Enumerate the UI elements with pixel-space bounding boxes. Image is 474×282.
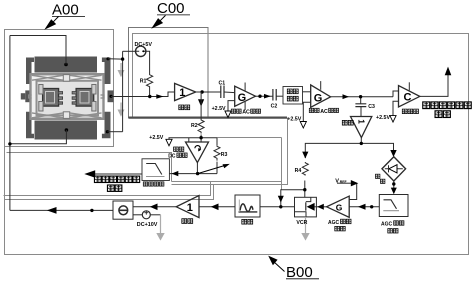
wire C3 to unity buffer <box>360 107 362 117</box>
node middle-section inner right edge <box>281 138 283 182</box>
wire phase box to VCR <box>260 206 295 208</box>
wire R3 bottom lead <box>216 162 218 174</box>
wire DC+5V right lead to R1 <box>146 51 150 73</box>
source DC+10V circle <box>142 211 150 219</box>
svg-text:VCR: VCR <box>296 220 307 226</box>
node R2 R3 input junction <box>199 136 202 139</box>
wire C2 to gain box <box>276 95 283 97</box>
anchor bracket bottom-right <box>102 112 111 139</box>
node AGC branch junction <box>279 205 282 208</box>
electrode bottom plate <box>35 121 98 140</box>
hanzi 二级AC放大 G2 label <box>309 108 313 112</box>
hanzi 传感频率输出 output label <box>423 102 430 109</box>
mass right inner notch <box>80 92 89 104</box>
wire AGC amp to VCR <box>316 206 326 208</box>
wire rectifier to AGC box <box>393 181 395 188</box>
wire G1 output <box>256 95 273 97</box>
symbol op-amp chopper glyph <box>195 146 200 151</box>
hanzi 前级DC放大 op-amp label <box>174 147 179 151</box>
svg-text:DC: DC <box>168 154 176 160</box>
arrow buffer to summing <box>150 204 158 211</box>
hanzi 片上测温电压 temperature label <box>94 176 101 182</box>
MEMS resonator structure <box>21 57 125 140</box>
pin G1 top <box>244 83 246 91</box>
node G2 output junction <box>359 95 362 98</box>
symbol VCR mosfet source line <box>295 212 307 217</box>
wire gain box to G2 <box>303 91 311 93</box>
hanzi 信号 output label line2 <box>435 111 442 118</box>
node AGC filter junction <box>370 205 373 208</box>
shuttle square top <box>63 75 69 82</box>
svg-text:DC+10V: DC+10V <box>137 222 158 228</box>
wire top-right bracket to bias vertical <box>108 58 123 60</box>
node bottom-section top outer edge <box>5 185 214 200</box>
arrow down into rectifier <box>390 150 396 157</box>
node sense junction R1 <box>148 95 151 98</box>
arrow G2 output feed <box>343 94 350 99</box>
pin op-amp left input <box>188 138 190 142</box>
symbol rectifier diode bar <box>388 165 390 172</box>
svg-text:C1: C1 <box>219 80 226 86</box>
svg-text:1: 1 <box>357 119 366 124</box>
svg-text:V: V <box>335 178 339 184</box>
anchor post left lower <box>39 102 43 112</box>
wire R2 bottom to input node <box>200 135 202 143</box>
op-amp G1 front AC amp triangle <box>235 86 256 106</box>
mass left inner notch <box>46 92 55 104</box>
wire buffer output <box>196 91 221 93</box>
wire phase box to buffer <box>199 206 235 208</box>
node top-right bracket contact <box>106 57 109 60</box>
node middle-section left divider <box>7 153 172 182</box>
hanzi 移相 phase label <box>242 219 247 224</box>
ground gray arrow VCR <box>301 233 309 241</box>
section boxes <box>4 28 469 255</box>
wire G2 lower input to supply <box>303 102 310 121</box>
wire R1 to sense node <box>149 88 151 97</box>
power +2.5V open arrow comparator <box>390 116 396 123</box>
wire junction down through divider <box>200 92 202 119</box>
svg-text:C2: C2 <box>271 104 278 110</box>
comparator C triangle <box>399 86 420 107</box>
node middle-section inner bottom edge <box>172 182 282 190</box>
anchor post right inner <box>92 85 96 95</box>
wire summing to buffer <box>133 206 176 208</box>
shuttle square bottom <box>63 112 69 119</box>
electrode top plate <box>35 57 98 73</box>
symbol VCR mosfet gate bar <box>305 202 307 210</box>
proof mass left <box>43 89 59 107</box>
arrow R3 trim head <box>223 164 230 168</box>
anchor post right lower <box>92 102 96 112</box>
svg-text:A00: A00 <box>52 2 79 19</box>
resonator frame outline <box>31 74 104 119</box>
wire through DC+5V <box>136 50 147 52</box>
wire R4 bottom to VCR top <box>304 181 306 198</box>
node bottom-right bracket contact <box>106 130 109 133</box>
arrow sense to buffer <box>156 94 163 99</box>
coupling left T <box>29 95 32 98</box>
pin comparator top <box>408 82 410 90</box>
svg-text:R2: R2 <box>191 123 198 129</box>
svg-text:AC: AC <box>242 110 250 116</box>
op-amp U1 buffer triangle <box>175 83 196 100</box>
hanzi 前端AC放大 G1 label <box>231 109 235 113</box>
op-amp U3 DC amp down triangle <box>186 142 209 163</box>
svg-text:C00: C00 <box>157 0 185 17</box>
symbol sine axis vertical <box>238 200 240 212</box>
arrow output up <box>445 67 452 76</box>
node AGC rail junction <box>360 142 363 145</box>
node R4 VCR junction <box>303 188 306 191</box>
arrow phase to buffer <box>211 204 219 211</box>
arrow into low-pass filter <box>172 171 179 176</box>
hanzi 阻抗 drive buffer label <box>182 219 187 224</box>
arrow R3 trim diagonal <box>198 165 227 174</box>
node right mid electrode contact <box>109 95 112 98</box>
node bottom-section top inner edge <box>4 182 211 196</box>
wire Vref down to AGC input <box>349 183 357 199</box>
hanzi 信号 temperature label line2 <box>107 185 114 191</box>
svg-text:AGC: AGC <box>381 221 393 227</box>
capacitor C3 <box>355 104 366 107</box>
arrow branch down to R2 <box>198 99 204 106</box>
svg-text:AC: AC <box>320 109 328 115</box>
symbol AGC low-pass axis <box>383 210 399 212</box>
hanzi 阻抗 buffer label <box>179 105 184 110</box>
box B00 outer frame <box>5 34 469 255</box>
node DC amp output junction <box>196 172 199 175</box>
capacitor C2 <box>273 89 276 101</box>
power +2.5V open arrow G1 <box>225 111 231 118</box>
block low-pass filter box <box>142 159 169 181</box>
wire supply rail to inputs <box>169 138 217 140</box>
svg-text:R3: R3 <box>221 152 228 158</box>
op-amp G2 second AC amp triangle <box>311 85 331 107</box>
symbol chopper glyph arrowhead <box>198 148 201 152</box>
node drive junction <box>90 209 93 212</box>
hanzi 阻抗 unity buffer label <box>342 120 347 125</box>
rectifier diamond <box>382 157 406 181</box>
node buffer output junction <box>200 90 203 93</box>
svg-text:C: C <box>404 91 412 103</box>
block phase shift box <box>235 195 260 217</box>
gray gap arrow upper <box>118 63 125 77</box>
wire AGC rail horizontal <box>305 143 393 158</box>
wire buffer apex to AGC rail <box>360 138 362 144</box>
arrow temperature output left <box>84 170 95 178</box>
svg-text:AGC: AGC <box>328 220 340 226</box>
arrow Vref right <box>351 180 359 186</box>
node middle-section outer bottom edge <box>172 118 288 185</box>
svg-text:G: G <box>336 202 343 212</box>
op-amp G3 AGC amp left triangle <box>327 196 350 217</box>
wire Vref feed <box>337 182 352 184</box>
node middle-section top thick divider <box>128 116 287 118</box>
gray gap arrow lower <box>118 103 125 117</box>
svg-text:1: 1 <box>187 202 193 214</box>
symbol VCR mosfet gate arrow lead <box>315 206 317 208</box>
power +2.5V open arrow G2 <box>300 122 306 129</box>
hanzi 低通滤波 filter label <box>143 182 147 186</box>
wire bottom-right bracket to bias vertical <box>107 131 122 133</box>
comb teeth right mass <box>72 92 76 105</box>
svg-text:1: 1 <box>179 87 185 99</box>
resistor R2 <box>198 119 204 134</box>
symbol VCR mosfet drain stub <box>306 197 311 201</box>
anchor bracket top-left <box>26 58 34 85</box>
wire left rail down to drive line <box>9 36 11 211</box>
svg-text:R4: R4 <box>295 168 302 174</box>
svg-text:+2.5V: +2.5V <box>287 117 301 123</box>
symbol sine wave <box>240 204 253 212</box>
wire AGC branch up from drive line <box>281 190 305 207</box>
coupling right T <box>101 95 105 98</box>
node G1 output junction <box>258 95 261 98</box>
wire B00 left edge lower segment <box>4 147 6 255</box>
box C00 (pickoff circuit frame) <box>129 28 209 118</box>
hanzi 比较器 comparator label <box>402 109 407 113</box>
arrow AGC filter to AGC amp <box>358 204 366 210</box>
svg-text:R1: R1 <box>140 79 147 85</box>
wire comparator upper input <box>393 91 399 97</box>
arrow AGC branch down <box>278 196 284 203</box>
wire comparator lower input to supply <box>393 101 399 115</box>
wire MEMS sense output <box>111 92 175 97</box>
symbol low-pass axis <box>146 175 165 177</box>
wire C3 top lead <box>360 97 362 104</box>
wire summing lower to DC10V <box>133 214 142 216</box>
pad left mid tab <box>21 93 26 99</box>
MEMS external wiring <box>10 36 123 211</box>
op-amp U2 unity buffer down triangle <box>351 117 372 138</box>
node top plate contact <box>64 63 68 67</box>
node bias junction <box>121 57 124 60</box>
frame inner outline <box>37 81 99 116</box>
symbol sine baseline <box>239 211 258 213</box>
node rail junction <box>8 142 11 145</box>
node rectifier output junction <box>392 182 395 185</box>
power +2.5V open arrow op-amp <box>166 139 172 146</box>
node middle-section inner top edge <box>217 137 282 139</box>
anchor bracket bottom-left <box>26 112 34 139</box>
wire C1 to G1 <box>224 91 235 94</box>
source DC+5V circle <box>136 46 146 56</box>
svg-text:G: G <box>238 92 247 104</box>
symbol VCR mosfet gate arrow head <box>307 203 315 211</box>
arrow down R4 <box>302 152 308 159</box>
proof mass right <box>76 89 94 107</box>
wire output node to R3 bottom <box>169 173 217 175</box>
wire temperature output <box>92 173 142 175</box>
wire op-amp apex to output node <box>196 163 198 174</box>
symbol low-pass curve <box>146 164 162 175</box>
svg-text:REF: REF <box>340 180 347 184</box>
anchor bracket top-right <box>102 58 111 85</box>
svg-text:DC+5V: DC+5V <box>135 42 153 48</box>
wire top plate to left rail <box>10 36 66 65</box>
block AGC low-pass box <box>379 195 408 217</box>
symbol AGC low-pass curve <box>384 200 397 209</box>
pin G1 bottom <box>244 101 246 110</box>
wire DC+5V left lead <box>123 50 136 52</box>
anchor post left inner <box>39 85 43 95</box>
block VCR box <box>295 197 317 217</box>
arrow AGC amp to VCR <box>317 204 324 210</box>
box A00 (MEMS die frame) <box>5 30 114 147</box>
pin G2 top <box>320 81 322 90</box>
svg-text:+2.5V: +2.5V <box>376 115 390 121</box>
wire drive line to MEMS <box>10 209 113 211</box>
wire bias vertical <box>122 51 124 131</box>
wire bottom plate to left rail <box>10 130 67 144</box>
suspension X-brace top <box>32 75 102 80</box>
wire G2 output <box>331 96 393 98</box>
wire AGC filter to AGC amp <box>349 206 379 208</box>
arrow rectifier to filter down <box>391 188 397 195</box>
capacitor C1 <box>221 86 224 99</box>
block summing box <box>113 201 133 219</box>
symbol rectifier diode line <box>385 168 403 170</box>
resistor R3 <box>214 145 220 160</box>
arrow drive to MEMS <box>47 207 57 214</box>
resistor R4 <box>302 162 308 176</box>
wire DC10V to ground <box>150 214 160 216</box>
resistor R1 <box>147 74 153 88</box>
svg-text:G: G <box>314 93 323 105</box>
wire comparator output up <box>420 75 448 97</box>
svg-text:+2.5V: +2.5V <box>212 106 226 112</box>
electrode right mid bar <box>108 90 114 102</box>
svg-text:C3: C3 <box>368 104 375 110</box>
symbol summing circle <box>119 206 128 215</box>
wire VCR to ground <box>305 217 307 233</box>
arrow G1 input feed <box>264 94 271 99</box>
ground gray arrow DC10V <box>156 233 164 241</box>
electrode left mid bar <box>25 90 31 102</box>
wire G1 lower input to supply <box>228 101 235 111</box>
suspension X-brace bottom <box>32 113 102 118</box>
node bottom plate contact <box>65 128 69 132</box>
block gain-adjust box <box>283 87 303 105</box>
symbol DC+10V plus <box>144 211 148 215</box>
wire R3 top lead <box>216 138 218 146</box>
symbol summing minus <box>120 209 128 211</box>
hanzi 整流 rectifier label <box>376 174 380 178</box>
comb teeth left mass <box>59 92 63 105</box>
hanzi 增益调节 gain box label <box>287 89 292 94</box>
symbol rectifier diode triangle <box>389 165 397 173</box>
svg-text:+2.5V: +2.5V <box>149 135 163 141</box>
op-amp U4 drive buffer left triangle <box>176 196 199 218</box>
